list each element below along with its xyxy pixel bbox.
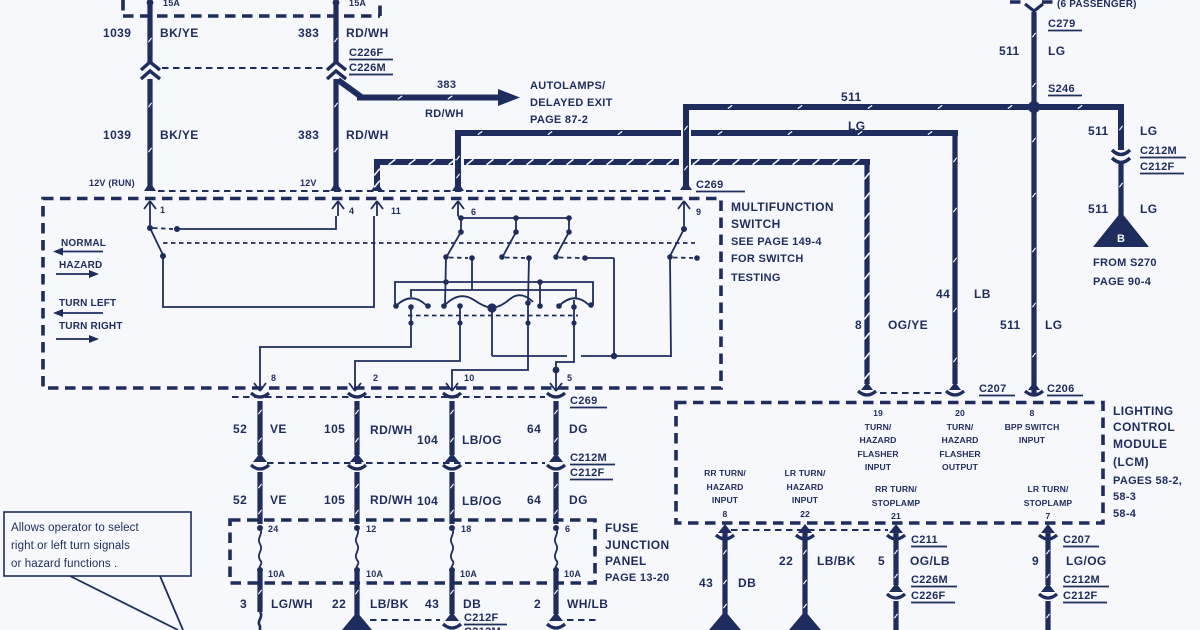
stub c dot <box>582 255 588 261</box>
fuse3 bottom dot <box>449 567 455 573</box>
arc2 center dot <box>457 303 463 309</box>
svg-text:DB: DB <box>463 597 481 611</box>
wire4 cup at C212 <box>547 465 565 469</box>
svg-text:SWITCH: SWITCH <box>731 217 781 231</box>
svg-text:PAGE 13-20: PAGE 13-20 <box>605 572 670 584</box>
pin 6 internal feed <box>458 216 461 218</box>
svg-text:C226F: C226F <box>911 590 946 602</box>
wire flare pin 6 <box>452 182 464 191</box>
OG/YE wire cup at LCM <box>858 391 876 395</box>
svg-text:C226M: C226M <box>911 574 948 586</box>
wire DB off-page triangle <box>709 611 741 630</box>
wiper arc 3 rising from center contact <box>492 295 533 308</box>
svg-text:STOPLAMP: STOPLAMP <box>1024 498 1073 508</box>
splice junction S246 dot <box>1028 101 1040 113</box>
wire 1039 BK/YE lower segment <box>147 79 152 189</box>
wire arc3 to pin 10 <box>452 303 528 372</box>
svg-text:RD/WH: RD/WH <box>346 128 389 142</box>
wire 5 OG/LB vertical <box>893 528 898 585</box>
svg-text:PAGE 87-2: PAGE 87-2 <box>530 114 588 126</box>
svg-text:C212M: C212M <box>464 626 501 630</box>
svg-text:1039: 1039 <box>103 26 131 40</box>
svg-text:BK/YE: BK/YE <box>160 128 199 142</box>
contact bus from pin 6 <box>461 217 569 219</box>
svg-text:LB/OG: LB/OG <box>462 433 502 447</box>
lighting control module dashed box <box>676 403 1103 524</box>
arc2 left end dot <box>441 303 447 309</box>
vertical from stub c to lower rail <box>613 258 615 355</box>
svg-text:INPUT: INPUT <box>712 495 739 505</box>
svg-text:7: 7 <box>1046 511 1051 521</box>
fuse3 element <box>451 528 454 568</box>
svg-text:LG: LG <box>1048 44 1065 58</box>
switch S1 lever <box>150 228 163 255</box>
stub a dot <box>469 255 475 261</box>
wire OG/LB cup <box>887 535 905 539</box>
svg-text:2: 2 <box>373 373 378 383</box>
connector dashed link at LCM top <box>880 392 945 394</box>
connector cup wire3 at C269 <box>443 393 461 397</box>
svg-text:8: 8 <box>723 509 728 519</box>
wire LB/BK flare below LCM <box>798 524 812 533</box>
svg-text:1039: 1039 <box>103 128 131 142</box>
wiper arc 2 with dip to center contact <box>444 296 492 308</box>
svg-text:TURN/: TURN/ <box>865 422 892 432</box>
svg-text:FLASHER: FLASHER <box>857 449 899 459</box>
svg-text:10A: 10A <box>460 569 477 579</box>
center contact big dot <box>487 303 496 312</box>
arrowhead autolamps <box>498 89 520 106</box>
stub b dot <box>526 255 532 261</box>
svg-text:10: 10 <box>464 373 474 383</box>
svg-text:BPP SWITCH: BPP SWITCH <box>1005 422 1060 432</box>
pin 10 arrow <box>446 372 458 391</box>
svg-text:104: 104 <box>417 433 438 447</box>
wire2 cup at C212 <box>348 465 366 469</box>
wire DB cup <box>716 535 734 539</box>
wire arc4 to pin 5 <box>556 300 574 372</box>
svg-text:SEE PAGE 149-4: SEE PAGE 149-4 <box>731 236 822 248</box>
svg-text:LR TURN/: LR TURN/ <box>1028 484 1069 494</box>
switch S1 pivot dot <box>147 225 153 231</box>
svg-text:C269: C269 <box>570 395 598 407</box>
svg-text:C212M: C212M <box>570 452 607 464</box>
pin 6 arrow <box>452 201 464 216</box>
wire1 squiggle tail <box>259 612 261 630</box>
svg-text:2: 2 <box>534 597 541 611</box>
pin 9 arrow <box>678 201 690 216</box>
511 LG wire end flare at LCM <box>1028 382 1040 390</box>
svg-text:11: 11 <box>391 206 401 216</box>
svg-text:3: 3 <box>240 597 247 611</box>
wire LB/BK off-page triangle <box>789 611 821 630</box>
switch S5 dashed stub <box>673 257 693 260</box>
svg-text:HAZARD: HAZARD <box>787 482 824 492</box>
arc4 center dot <box>571 304 577 310</box>
wire 105 RD/WH segment 2 <box>354 472 359 524</box>
wire flare pin 11 <box>371 182 383 191</box>
svg-text:22: 22 <box>779 554 793 568</box>
switch S5 feed from pin 9 <box>683 216 685 227</box>
wire from stub dot to pin 4 <box>177 216 336 229</box>
svg-text:383: 383 <box>298 128 319 142</box>
wire 511 LG horizontal (line A) from C269 up to S246 and right <box>686 107 1121 188</box>
svg-text:6: 6 <box>565 524 570 534</box>
svg-text:9: 9 <box>696 207 701 217</box>
svg-text:20: 20 <box>955 408 965 418</box>
svg-text:C212F: C212F <box>570 467 605 479</box>
wire 22 LB/BK below panel <box>354 570 359 616</box>
svg-text:TESTING: TESTING <box>731 272 781 284</box>
wire 1039 BK/YE upper segment <box>147 2 152 63</box>
44 LB wire cup at LCM <box>946 391 964 395</box>
svg-text:1: 1 <box>160 205 165 215</box>
wire 22 LB/BK vertical <box>802 528 807 616</box>
svg-text:19: 19 <box>873 408 883 418</box>
svg-text:right or left turn signals: right or left turn signals <box>11 540 130 552</box>
switch S1 dashed stub <box>153 228 173 229</box>
switch S5 lever <box>670 229 684 256</box>
svg-text:12V (RUN): 12V (RUN) <box>89 178 135 188</box>
svg-text:LG/WH: LG/WH <box>271 597 313 611</box>
connector chevron C212M/C212F on 511 wire <box>1112 150 1130 163</box>
lever c <box>556 232 569 256</box>
fuse2 top dot <box>354 525 360 531</box>
lower rail to pin-9 lever (with hop) <box>492 258 671 357</box>
pivot dot a <box>458 229 464 235</box>
bus junction dot b <box>513 215 519 221</box>
wire LG/OG tail <box>1045 601 1050 630</box>
svg-text:511: 511 <box>1000 318 1021 332</box>
wire LG/OG flare at C212 <box>1041 583 1055 592</box>
connector cup wire2 at C269 <box>348 393 366 397</box>
svg-text:DG: DG <box>569 422 588 436</box>
svg-text:LIGHTING: LIGHTING <box>1113 404 1174 418</box>
lever b end dot <box>499 254 505 260</box>
wire OG/LB tail <box>893 601 898 630</box>
svg-text:9: 9 <box>1032 554 1039 568</box>
wire 8 OG/YE vertical <box>864 160 869 384</box>
connector C211 dashed line below LCM <box>731 529 888 531</box>
wire 43 DB below panel <box>449 570 454 614</box>
svg-text:(LCM): (LCM) <box>1113 455 1149 469</box>
lower rail junction dot <box>611 353 617 359</box>
fuse3 top dot <box>449 525 455 531</box>
wiper arc 4 <box>559 298 589 306</box>
fuse4 element <box>555 528 558 568</box>
wire DB flare below LCM <box>718 524 732 533</box>
svg-text:RD/WH: RD/WH <box>370 423 413 437</box>
wire LB/BK cup <box>796 535 814 539</box>
arrow hazard (right) <box>56 273 94 275</box>
svg-text:44: 44 <box>936 287 950 301</box>
svg-text:LG: LG <box>1140 202 1157 216</box>
svg-text:43: 43 <box>425 597 439 611</box>
wire4 flare at C212 <box>549 453 563 462</box>
svg-text:10A: 10A <box>268 569 285 579</box>
svg-text:OG/YE: OG/YE <box>888 318 928 332</box>
arrow normal (left) <box>58 251 103 253</box>
svg-text:18: 18 <box>461 524 471 534</box>
svg-text:PAGES 58-2,: PAGES 58-2, <box>1113 475 1182 487</box>
lever c end dot <box>553 254 559 260</box>
wire arc2 to pin 2 <box>355 306 460 372</box>
svg-text:C207: C207 <box>979 383 1007 395</box>
wire 383 RD/WH upper segment <box>333 2 338 62</box>
contact drop b <box>515 218 517 230</box>
svg-text:24: 24 <box>268 524 278 534</box>
wire1 flare at C212 <box>253 453 267 462</box>
svg-text:FROM S270: FROM S270 <box>1093 257 1157 269</box>
svg-text:58-4: 58-4 <box>1113 508 1137 520</box>
fuse junction panel dashed box <box>230 520 595 583</box>
svg-text:C226F: C226F <box>349 47 384 59</box>
svg-text:C226M: C226M <box>349 62 386 74</box>
callout pointer line 2 <box>160 576 183 630</box>
svg-text:FOR SWITCH: FOR SWITCH <box>731 253 804 265</box>
wire 52 VE segment 1 <box>257 401 262 455</box>
svg-text:PAGE 90-4: PAGE 90-4 <box>1093 276 1152 288</box>
svg-text:64: 64 <box>527 493 541 507</box>
svg-text:15A: 15A <box>349 0 366 8</box>
svg-text:HAZARD: HAZARD <box>707 482 744 492</box>
svg-text:RD/WH: RD/WH <box>370 493 413 507</box>
wire arc1 to pin 8 <box>260 307 411 372</box>
svg-text:12V: 12V <box>300 178 317 188</box>
svg-text:CONTROL: CONTROL <box>1113 420 1175 434</box>
svg-text:104: 104 <box>417 494 438 508</box>
wire 64 DG segment 1 <box>553 401 558 455</box>
contact rail upper (bus1) <box>395 282 593 306</box>
44 LB wire end flare at LCM <box>949 382 961 390</box>
wire 44 LB vertical <box>952 131 957 384</box>
svg-text:(6 PASSENGER): (6 PASSENGER) <box>1057 0 1137 10</box>
svg-text:10A: 10A <box>366 569 383 579</box>
fuse4 bottom dot <box>553 567 559 573</box>
pin 1 arrow <box>144 201 156 216</box>
connector cup wire1 at C269 <box>251 393 269 397</box>
lever b dashed stub <box>505 257 525 260</box>
svg-text:LB/OG: LB/OG <box>462 494 502 508</box>
svg-text:RR TURN/: RR TURN/ <box>875 484 917 494</box>
svg-text:STOPLAMP: STOPLAMP <box>872 498 921 508</box>
svg-text:C212F: C212F <box>1063 590 1098 602</box>
svg-text:105: 105 <box>324 493 345 507</box>
wire3 flare at bottom C212F <box>445 612 459 621</box>
svg-text:INPUT: INPUT <box>865 462 892 472</box>
mechanical link dashed line (upper) <box>163 242 695 244</box>
svg-text:105: 105 <box>324 422 345 436</box>
drop dot arc3 <box>525 320 530 325</box>
svg-text:BK/YE: BK/YE <box>160 26 199 40</box>
wire LG/OG flare below LCM <box>1041 524 1055 533</box>
bus junction dot c <box>566 215 572 221</box>
wire3 cup at C212 <box>443 465 461 469</box>
wire OG/LB flare below LCM <box>889 524 903 533</box>
svg-text:VE: VE <box>270 422 287 436</box>
arc3 right end dot <box>525 300 531 306</box>
wire 511 LG to triangle B <box>1118 164 1123 216</box>
switch S5 lever end dot <box>667 254 673 260</box>
wire flare at pin 1 <box>144 182 156 191</box>
arc1 center dot <box>408 304 414 310</box>
pin 5 arrow <box>550 372 562 391</box>
svg-text:HAZARD: HAZARD <box>860 435 897 445</box>
svg-text:HAZARD: HAZARD <box>942 435 979 445</box>
switch S1 feed from pin 1 <box>149 216 151 226</box>
arc4 right end dot <box>588 302 594 308</box>
svg-text:10A: 10A <box>564 569 581 579</box>
svg-text:TURN LEFT: TURN LEFT <box>59 298 116 309</box>
wire2 off-page triangle <box>342 612 372 630</box>
wire 43 DB vertical <box>722 528 727 616</box>
wire LG/OG cup at C212 <box>1039 594 1057 598</box>
wire 105 RD/WH segment 1 <box>354 401 359 455</box>
fuse box (engine compartment, bottom edge) <box>123 0 380 16</box>
switch S5 pivot dot <box>681 226 687 232</box>
connector cup wire4 at C269 <box>547 393 565 397</box>
fuse2 bottom dot <box>354 567 360 573</box>
wire center contact to lower rail <box>491 308 493 356</box>
lever a end dot <box>443 254 449 260</box>
svg-text:383: 383 <box>298 26 319 40</box>
svg-text:RD/WH: RD/WH <box>425 108 464 120</box>
wire4 flare at bottom <box>549 612 563 621</box>
switch S1 lever end dot <box>160 253 166 259</box>
wire 2 WH/LB below panel <box>553 570 558 614</box>
connector C212 dashed line <box>267 462 545 464</box>
svg-text:C269: C269 <box>696 179 724 191</box>
contact drop a <box>460 218 462 230</box>
svg-text:383: 383 <box>437 79 456 91</box>
svg-text:WH/LB: WH/LB <box>567 597 608 611</box>
svg-text:RR TURN/: RR TURN/ <box>704 468 746 478</box>
svg-text:511: 511 <box>841 90 862 104</box>
svg-text:LB/BK: LB/BK <box>370 597 409 611</box>
svg-text:DB: DB <box>738 576 756 590</box>
switch S1 stub dot <box>174 226 180 232</box>
wire hatch texture (white slashes) <box>374 159 870 379</box>
svg-text:PANEL: PANEL <box>605 554 647 568</box>
svg-text:5: 5 <box>878 554 885 568</box>
svg-text:511: 511 <box>1088 202 1109 216</box>
svg-text:RD/WH: RD/WH <box>346 26 389 40</box>
connector dashed line at bottom edge <box>370 619 597 621</box>
svg-text:MODULE: MODULE <box>1113 437 1167 451</box>
svg-text:JUNCTION: JUNCTION <box>605 538 670 552</box>
fuse2 element <box>356 528 359 568</box>
wire 511 LG vertical from C279 to LCM pin 8 <box>1031 12 1036 396</box>
connector chevron C226F/C226M on RD/WH wire <box>327 62 346 79</box>
svg-text:C212F: C212F <box>1140 161 1175 173</box>
svg-text:15A: 15A <box>163 0 180 8</box>
pin 5 junction dot <box>553 367 560 374</box>
svg-text:6: 6 <box>471 207 476 217</box>
svg-text:4: 4 <box>349 206 354 216</box>
wire hatched line C from pin 11 to OG/YE (hops pin6 and pin9 wires) <box>377 162 867 188</box>
svg-text:or hazard functions .: or hazard functions . <box>11 558 117 570</box>
callout note box <box>4 512 191 576</box>
arrow turn left <box>58 312 103 314</box>
svg-text:OUTPUT: OUTPUT <box>942 462 979 472</box>
svg-text:FLASHER: FLASHER <box>939 449 981 459</box>
wire 104 LB/OG segment 1 <box>449 401 454 455</box>
fuse F14 15A right terminal <box>333 0 340 6</box>
svg-text:OG/LB: OG/LB <box>910 554 950 568</box>
pivot dot b <box>513 229 519 235</box>
svg-text:C212M: C212M <box>1063 574 1100 586</box>
lever a <box>447 232 461 256</box>
stub a drop to bus2 <box>471 258 473 290</box>
off-page triangle B <box>1093 212 1149 247</box>
svg-text:C211: C211 <box>911 534 938 546</box>
svg-text:C212M: C212M <box>1140 145 1177 157</box>
lever b <box>503 232 516 256</box>
svg-text:511: 511 <box>1088 124 1109 138</box>
wire 3 LG/WH below panel <box>257 570 262 612</box>
svg-text:LG: LG <box>1140 124 1157 138</box>
svg-text:C206: C206 <box>1047 383 1075 395</box>
stub b drop to arc3 <box>528 258 529 302</box>
svg-text:8: 8 <box>855 318 862 332</box>
multifunction switch dashed box <box>43 199 721 389</box>
drop dot arc2 <box>457 320 462 325</box>
arc3 dashed end dot <box>537 303 543 309</box>
svg-text:VE: VE <box>270 493 287 507</box>
wire3 cup at bottom C212F <box>443 624 461 628</box>
wire 104 LB/OG segment 2 <box>449 472 454 524</box>
fuse1 top dot <box>257 525 263 531</box>
bus1 dot at lever-a line <box>443 279 449 285</box>
lever a dashed stub <box>449 257 468 260</box>
svg-text:52: 52 <box>233 422 247 436</box>
svg-text:22: 22 <box>800 509 810 519</box>
connector chevron C279 <box>1025 4 1043 11</box>
svg-text:B: B <box>1117 233 1125 245</box>
svg-text:8: 8 <box>1030 408 1035 418</box>
wire flare at pin 4 <box>330 182 342 191</box>
svg-text:S246: S246 <box>1048 83 1075 95</box>
wire 383 RD/WH lower segment to pin 4 <box>333 79 338 189</box>
svg-text:64: 64 <box>527 422 541 436</box>
svg-text:DG: DG <box>569 493 588 507</box>
OG/YE wire end flare at LCM <box>861 382 873 390</box>
connector chevron C269 at pin 9 wire base <box>680 181 692 190</box>
pivot dot c <box>566 229 572 235</box>
svg-text:C279: C279 <box>1048 18 1076 30</box>
connector C226 dashed link line <box>162 67 326 69</box>
contact rail lower (bus2) <box>411 290 576 298</box>
pin 4 arrow <box>332 201 344 216</box>
callout pointer line 1 <box>70 576 178 630</box>
svg-text:12: 12 <box>366 524 376 534</box>
svg-text:AUTOLAMPS/: AUTOLAMPS/ <box>530 80 606 92</box>
svg-text:Allows operator to select: Allows operator to select <box>11 522 139 534</box>
svg-text:52: 52 <box>233 493 247 507</box>
svg-text:INPUT: INPUT <box>1019 435 1046 445</box>
contact drop c <box>568 218 570 230</box>
svg-text:LB/BK: LB/BK <box>817 554 856 568</box>
wire OG/LB flare at C226 <box>889 583 903 592</box>
fuse F15 15A left terminal <box>147 0 154 6</box>
svg-text:C212F: C212F <box>464 612 499 624</box>
svg-text:DELAYED EXIT: DELAYED EXIT <box>530 97 613 109</box>
svg-text:LR TURN/: LR TURN/ <box>785 468 826 478</box>
arc1 left end dot <box>393 303 399 309</box>
mechanical link dashed line (lower) <box>408 315 578 317</box>
svg-text:22: 22 <box>332 597 346 611</box>
svg-text:C207: C207 <box>1063 534 1091 546</box>
